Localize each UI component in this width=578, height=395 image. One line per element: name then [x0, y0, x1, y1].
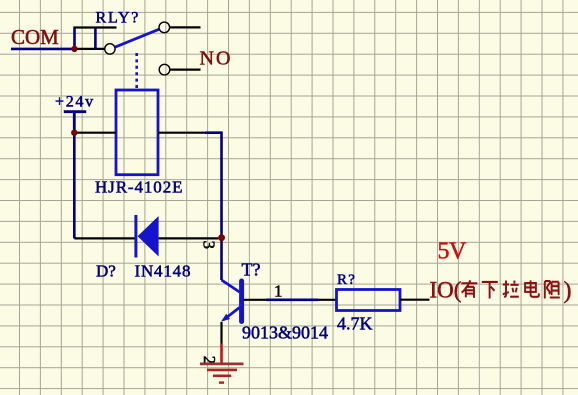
svg-text:): ) — [564, 278, 572, 304]
wire junction to switch pole — [75, 48, 105, 50]
junction dot at +24v node — [71, 130, 77, 136]
wire to diode cathode — [74, 237, 134, 239]
svg-text:R?: R? — [337, 272, 356, 288]
relay NO contact — [159, 64, 170, 75]
svg-text:3: 3 — [200, 241, 219, 250]
transistor emitter arrowhead — [221, 314, 230, 322]
svg-text:5V: 5V — [438, 239, 468, 265]
ground bar 1 — [200, 362, 244, 365]
net label chinese char you — [461, 280, 477, 298]
relay actuator dashed link — [135, 53, 138, 89]
svg-text:D?: D? — [96, 262, 116, 281]
wire emitter down — [220, 322, 222, 344]
transistor base bar — [239, 281, 244, 322]
power +24v stem — [73, 112, 76, 132]
svg-text:1: 1 — [274, 281, 283, 300]
svg-text:9013&9014: 9013&9014 — [242, 323, 328, 343]
svg-text:RLY?: RLY? — [96, 10, 141, 27]
relay switch pole contact — [105, 44, 115, 54]
wire resistor to IO — [400, 299, 430, 301]
resistor R? body — [337, 290, 401, 311]
net label chinese char dian — [525, 280, 539, 297]
svg-text:NO: NO — [200, 48, 233, 70]
svg-text:T?: T? — [242, 260, 261, 280]
power +24v bar — [64, 110, 86, 113]
net label chinese char zu — [545, 281, 560, 299]
net label chinese char la — [503, 281, 519, 297]
ground bar 3 — [213, 374, 231, 377]
wire +24v down to diode — [73, 133, 76, 239]
svg-text:COM: COM — [11, 25, 59, 49]
wire top horizontal of relay bracket — [73, 26, 116, 28]
wire COM lead — [11, 48, 75, 51]
wire emitter to ground (red segment) — [220, 344, 223, 364]
relay switch blade — [115, 29, 159, 47]
ground bar 4 — [219, 381, 224, 383]
svg-text:IN4148: IN4148 — [135, 262, 192, 281]
junction dot at COM node — [71, 46, 77, 52]
svg-text:HJR-4102E: HJR-4102E — [95, 178, 183, 197]
transistor collector diagonal — [222, 280, 240, 292]
svg-text:4.7K: 4.7K — [337, 313, 373, 333]
wire vertical up from junction — [73, 28, 76, 49]
ground bar 2 — [207, 369, 237, 372]
wire diode anode to collector node — [159, 237, 219, 239]
wire base to resistor — [244, 299, 337, 301]
wire corner down to collector node — [205, 133, 222, 280]
diode D? cathode bar — [134, 215, 137, 258]
svg-text:+24v: +24v — [55, 94, 95, 111]
wire NC contact lead — [170, 26, 201, 28]
wire base navy overlay — [266, 298, 318, 301]
wire +24v to coil pin 1 — [74, 132, 116, 134]
relay pole link tick — [94, 28, 97, 49]
relay coil body — [116, 90, 158, 175]
net label chinese char xia — [482, 282, 498, 299]
svg-text:IO(: IO( — [430, 278, 462, 303]
diode D? triangle — [138, 216, 159, 257]
junction dot at collector node — [218, 234, 225, 241]
wire NO contact lead — [170, 68, 201, 70]
transistor emitter diagonal — [227, 308, 240, 318]
wire coil pin 2 to corner — [158, 132, 207, 134]
relay NC contact — [159, 22, 170, 33]
